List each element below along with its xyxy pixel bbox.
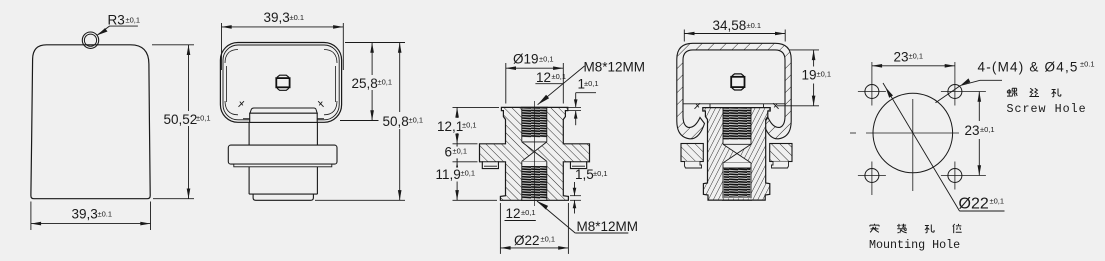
- dim 39,3 extension lines: [30, 202, 32, 231]
- knob body outline: [31, 45, 150, 199]
- glyph kong2: [925, 225, 934, 233]
- svg-text:±0.1: ±0.1: [1080, 60, 1095, 69]
- dim 23 top line: [872, 65, 955, 67]
- mould tick right v4: [773, 103, 779, 109]
- dim 19 label: [801, 68, 833, 82]
- R3 ring detail: [82, 32, 98, 48]
- svg-text:19: 19: [802, 68, 817, 83]
- panel foot left: [685, 162, 702, 169]
- svg-text:23: 23: [894, 50, 909, 65]
- centre line: [534, 101, 536, 206]
- svg-text:Ø22: Ø22: [514, 233, 540, 248]
- svg-text:39,3: 39,3: [72, 207, 98, 222]
- svg-text:Mounting Hole: Mounting Hole: [869, 238, 960, 252]
- knob third corner arcs: [225, 50, 238, 64]
- dim 11,9 left: [453, 199, 498, 201]
- knob inner contour: [223, 45, 339, 120]
- drill cone X hourglass: [522, 142, 547, 152]
- glyph an: [870, 224, 879, 233]
- dim 39,3 v2 line: [222, 26, 344, 28]
- svg-text:Ø22: Ø22: [959, 196, 989, 213]
- dim O22 line: [500, 247, 568, 249]
- panel tab left: [681, 144, 703, 162]
- side waist lines: [226, 66, 228, 102]
- glyph luo: [1007, 88, 1017, 97]
- lower threaded hole M8: [522, 161, 547, 200]
- svg-text:±0,1: ±0,1: [539, 55, 554, 64]
- dim 50,8 line: [399, 43, 401, 113]
- svg-text:23: 23: [965, 123, 980, 138]
- svg-text:12: 12: [506, 206, 521, 221]
- R3 leader: [98, 26, 138, 35]
- dim 39,3 line: [31, 223, 151, 225]
- bottom cap: [253, 194, 313, 200]
- shell bottom corner lines: [243, 118, 250, 120]
- dim 25,8 line: [371, 43, 373, 76]
- svg-text:±0,1: ±0,1: [593, 169, 608, 178]
- svg-text:50,8: 50,8: [383, 114, 409, 129]
- white mounting feet left: [482, 162, 498, 169]
- svg-text:±0,1: ±0,1: [521, 208, 536, 217]
- collar band: [250, 113, 318, 122]
- dim 50,8 label: [382, 113, 422, 128]
- svg-text:±0,1: ±0,1: [909, 52, 924, 61]
- leader 4-M4: [980, 79, 1002, 81]
- lower thread hole v4: [723, 163, 751, 199]
- dim 12,1 left: [453, 106, 500, 108]
- panel tab right: [770, 144, 792, 162]
- dim 50,8 extensions: [345, 42, 405, 44]
- svg-text:±0.1: ±0.1: [747, 21, 762, 30]
- svg-text:±0,1: ±0,1: [817, 70, 832, 79]
- svg-text:50,52: 50,52: [164, 112, 198, 127]
- svg-text:25,8: 25,8: [352, 76, 378, 91]
- cone X hourglass v4: [723, 144, 751, 153]
- svg-text:6: 6: [445, 145, 453, 160]
- mould tick right: [318, 101, 324, 107]
- dim 50,52 label: [163, 111, 210, 126]
- svg-text:34,58: 34,58: [713, 18, 747, 33]
- centre barrel detail v4: [731, 77, 744, 87]
- flange step: [234, 164, 332, 167]
- mould tick left: [239, 101, 245, 107]
- svg-text:1,5: 1,5: [575, 167, 594, 182]
- lower stem: [249, 167, 317, 194]
- bushing silhouette hatched: [480, 107, 590, 200]
- white mounting feet right: [571, 162, 587, 169]
- dim 25,8 extensions: [345, 42, 379, 44]
- glyph si: [1029, 88, 1039, 96]
- upper threaded hole M8: [522, 107, 547, 141]
- svg-text:±0.1: ±0.1: [98, 210, 113, 219]
- svg-text:11,9: 11,9: [436, 167, 461, 182]
- mould tick left v4: [695, 103, 701, 109]
- centre barrel detail: [276, 78, 289, 87]
- dim O22 extensions: [499, 203, 501, 254]
- collar sides v4: [709, 104, 711, 108]
- svg-text:±0,1: ±0,1: [584, 79, 599, 88]
- O22 leader: [883, 83, 960, 211]
- svg-text:±0,1: ±0,1: [126, 16, 141, 25]
- svg-text:±0,1: ±0,1: [378, 78, 393, 87]
- svg-text:±0,1: ±0,1: [990, 197, 1005, 206]
- knob outer contour: [220, 43, 341, 123]
- svg-text:±0,1: ±0,1: [409, 116, 424, 125]
- svg-text:±0,1: ±0,1: [196, 114, 211, 123]
- bushing section v4: [703, 108, 770, 201]
- big circle centrelines: [850, 132, 856, 134]
- svg-text:M8*12MM: M8*12MM: [577, 219, 639, 234]
- dim 50,52 extension lines: [152, 44, 194, 46]
- svg-text:M8*12MM: M8*12MM: [584, 60, 646, 75]
- svg-text:12,1: 12,1: [437, 119, 463, 134]
- svg-text:±0,1: ±0,1: [552, 72, 567, 81]
- svg-text:39,3: 39,3: [264, 10, 290, 25]
- dim 39,3 v2 extension lines: [221, 23, 223, 70]
- svg-text:±0,1: ±0,1: [453, 147, 468, 156]
- svg-text:Screw Hole: Screw Hole: [1007, 102, 1087, 116]
- dim 23 right line: [978, 92, 980, 122]
- dim 34,58 line: [684, 33, 785, 35]
- screw hole bottom-right: [948, 169, 962, 183]
- svg-text:±0,1: ±0,1: [461, 169, 476, 178]
- dim O19 extensions: [505, 63, 507, 104]
- svg-text:±0.1: ±0.1: [290, 13, 305, 22]
- dim 25,8 label: [351, 77, 391, 90]
- caption luo si kong (Chinese): [1007, 88, 1061, 97]
- knob shell section band: [677, 43, 791, 139]
- dim 23 top extensions: [871, 62, 873, 73]
- screw hole top-left: [865, 85, 879, 99]
- cavity bottom line: [684, 103, 786, 105]
- screw hole bottom-left: [865, 169, 879, 183]
- dim 19 extensions: [789, 49, 819, 51]
- dim 34,58 extensions: [683, 30, 685, 42]
- flange: [228, 145, 337, 164]
- leader M8*12MM bottom: [537, 201, 575, 233]
- dim 6 left: [453, 161, 478, 163]
- svg-text:12: 12: [536, 70, 551, 85]
- big circle O22: [873, 93, 953, 173]
- svg-text:R3: R3: [108, 13, 125, 28]
- screw hole top-right: [948, 85, 962, 99]
- svg-text:4-(M4) & Ø4,5: 4-(M4) & Ø4,5: [978, 60, 1079, 75]
- leader M8*12MM top: [538, 66, 585, 105]
- glyph kong: [1052, 89, 1061, 97]
- glyph zhuang: [897, 224, 906, 233]
- svg-text:±0,1: ±0,1: [462, 121, 477, 130]
- svg-text:±0,1: ±0,1: [541, 235, 556, 244]
- upper thread hole v4: [723, 108, 751, 145]
- dim 19 line: [813, 50, 815, 67]
- dim 50,52 line: [188, 45, 190, 199]
- svg-text:Ø19: Ø19: [513, 52, 539, 67]
- collar trapezoid: [250, 108, 317, 113]
- glyph wei: [953, 224, 962, 233]
- upper stem: [249, 122, 317, 145]
- caption an zhuang kong wei (Chinese): [870, 224, 962, 233]
- dim O19 line: [506, 67, 564, 69]
- svg-text:±0,1: ±0,1: [980, 125, 995, 134]
- panel foot right: [772, 162, 789, 169]
